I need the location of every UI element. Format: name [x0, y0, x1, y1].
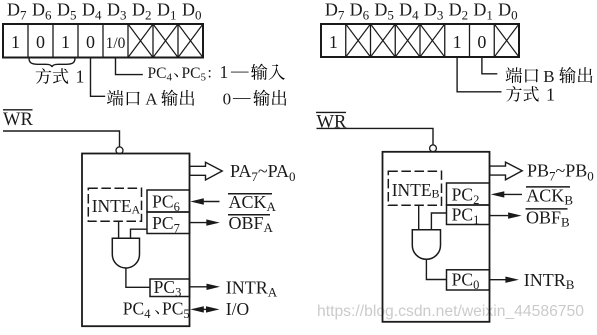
svg-text:1: 1: [76, 67, 85, 87]
port B control-word register box: [321, 24, 519, 57]
svg-text:—: —: [232, 87, 251, 107]
svg-text:1: 1: [329, 32, 338, 52]
PC6 box: [147, 190, 190, 212]
svg-text:B: B: [543, 67, 554, 86]
PC0 box: [447, 270, 490, 290]
wire from bit D1 to port-B caption: [482, 57, 497, 74]
label ACK-A with overline: [228, 192, 277, 214]
svg-text:—: —: [230, 61, 249, 81]
INTE A dashed box: [88, 188, 141, 221]
PC1 box: [447, 205, 490, 225]
svg-text:PA7~PA0: PA7~PA0: [230, 161, 295, 184]
caption 端口 B 输出: [506, 67, 593, 86]
svg-text:0: 0: [223, 90, 232, 109]
bit values 1 .. 1 0 (right): [329, 32, 487, 52]
bus arrow PB7~PB0: [490, 162, 522, 180]
label OBF-A with overline: [228, 213, 274, 235]
PC2 box: [447, 183, 490, 205]
PC7 box: [147, 212, 190, 234]
caption 0—输出: [223, 87, 287, 109]
signal WR-bar (left): [3, 110, 33, 130]
PC3 box: [150, 279, 190, 297]
svg-text:PB7~PB0: PB7~PB0: [527, 161, 594, 184]
AND gate (right): [412, 230, 440, 260]
signal WR-bar (right): [316, 112, 347, 132]
svg-text:WR: WR: [3, 110, 33, 130]
caption 方式 1 (left): [36, 67, 85, 87]
wire from bit D4 to port-A caption: [91, 58, 106, 97]
label OBF-B with overline: [526, 208, 571, 230]
wire WR to block B: [317, 128, 434, 145]
caption PC4、PC5: 1—输入: [148, 61, 285, 84]
inverter bubble (right block): [430, 145, 437, 152]
X marks in bits D6-D3 and D0 (right): [346, 24, 519, 57]
svg-text:1: 1: [61, 32, 70, 52]
wire AND gate to PC3: [126, 268, 150, 287]
bus arrow PA7~PA0: [190, 162, 222, 180]
signal ACK-B arrow into PC2: [491, 191, 522, 197]
svg-text:1/0: 1/0: [106, 35, 126, 52]
caption 端口 A 输出: [107, 90, 194, 109]
bit labels D7-D0 (left): [7, 0, 202, 23]
wire INTE to AND gate (right): [418, 205, 420, 230]
label PC4、PC5 inside block: [123, 299, 190, 322]
wire INTE to AND gate (left): [118, 221, 120, 238]
svg-text:0: 0: [86, 32, 95, 52]
signal OBF-B arrow out of PC1: [490, 212, 522, 218]
wire PC1 to AND gate: [431, 213, 446, 230]
inverter bubble (left block): [116, 147, 123, 154]
I/O double arrow for PC4 PC5: [190, 306, 219, 312]
svg-text:A: A: [145, 90, 158, 109]
svg-text:0: 0: [36, 32, 45, 52]
bit labels D7-D0 (right): [325, 0, 518, 23]
X marks in bits D2-D0: [128, 24, 203, 58]
svg-text:I/O: I/O: [226, 299, 249, 319]
INTE B dashed box: [388, 171, 441, 205]
wire from bit D2 to mode caption: [457, 57, 501, 92]
block outline port A logic: [82, 154, 190, 327]
signal OBF-A arrow out of PC7: [190, 219, 220, 225]
brace under D6 D5 (mode field): [29, 58, 75, 67]
wire AND gate to PC0: [426, 259, 446, 279]
AND gate (left): [112, 238, 139, 268]
bit values 1 0 1 0 1/0 (left): [11, 32, 126, 52]
svg-text:WR: WR: [317, 113, 347, 133]
svg-text::: :: [208, 65, 212, 82]
svg-text:1: 1: [11, 32, 20, 52]
wire WR to block A: [3, 131, 120, 147]
signal INTR-B arrow out of PC0: [490, 277, 519, 283]
label ACK-B with overline: [526, 186, 573, 208]
signal ACK-A arrow into PC6: [190, 198, 219, 204]
caption 方式 1 (right): [506, 84, 555, 104]
svg-text:1: 1: [546, 84, 555, 104]
svg-text:1: 1: [220, 62, 229, 82]
signal INTR-A arrow out of PC3: [190, 284, 220, 290]
svg-text:0: 0: [477, 32, 486, 52]
label PA7~PA0: [230, 161, 295, 184]
svg-text:https://blog.csdn.net/weixin_4: https://blog.csdn.net/weixin_44586750: [317, 303, 584, 320]
wire PC7 to AND gate: [131, 229, 148, 238]
port A control-word register box: [3, 24, 203, 58]
svg-text:1: 1: [453, 32, 462, 52]
block outline port B logic: [383, 152, 490, 322]
wire from bit D3 to PC4 PC5 caption: [116, 58, 143, 75]
label PB7~PB0: [527, 161, 594, 184]
